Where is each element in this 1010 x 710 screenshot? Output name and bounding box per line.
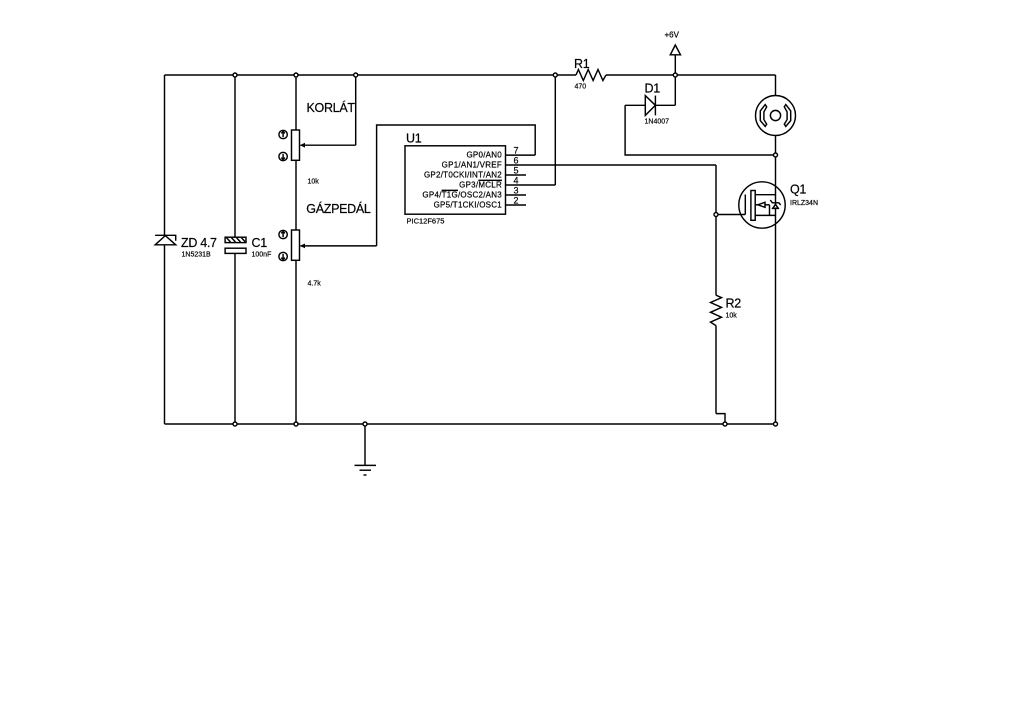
label Q1 bbox=[790, 183, 806, 197]
svg-text:U1: U1 bbox=[406, 132, 422, 146]
label R1 bbox=[574, 57, 590, 71]
value 4.7k (GAZPEDAL) bbox=[308, 281, 322, 288]
bottom rail wire (GND net) bbox=[165, 423, 776, 425]
svg-text:GP3/MCLR: GP3/MCLR bbox=[459, 181, 502, 190]
label U1 bbox=[406, 132, 422, 146]
svg-text:470: 470 bbox=[575, 84, 587, 91]
left rail wire bbox=[164, 75, 166, 424]
pin 3 number bbox=[514, 186, 519, 196]
wire pin 4 to top rail bbox=[554, 75, 556, 185]
svg-text:10k: 10k bbox=[726, 313, 738, 320]
pin label GP3/MCLR bbox=[459, 180, 502, 189]
junction motor bottom / drain bbox=[774, 153, 778, 157]
label +6V bbox=[665, 31, 680, 40]
junction R2 bottom bbox=[723, 422, 727, 426]
value 1N4007 bbox=[645, 119, 670, 126]
value 470 bbox=[575, 84, 587, 91]
label ZD 4.7 bbox=[181, 236, 217, 250]
label KORLAT bbox=[307, 100, 356, 115]
pin 4 number bbox=[514, 176, 519, 186]
svg-text:IRLZ34N: IRLZ34N bbox=[790, 200, 818, 207]
pin label GP1/AN1/VREF bbox=[442, 161, 502, 170]
svg-text:+6V: +6V bbox=[665, 31, 680, 40]
potentiometer KORLAT body bbox=[292, 130, 300, 160]
junction gate node bbox=[714, 213, 718, 217]
junction KORLAT wiper top bbox=[354, 73, 358, 77]
label D1 bbox=[645, 82, 661, 96]
motor M bbox=[756, 75, 796, 136]
svg-text:GP5/T1CKI/OSC1: GP5/T1CKI/OSC1 bbox=[434, 201, 503, 210]
svg-text:Q1: Q1 bbox=[790, 183, 806, 197]
resistor R1 bbox=[576, 70, 606, 81]
IC U1 body bbox=[405, 146, 506, 214]
potentiometer GAZPEDAL body bbox=[292, 230, 300, 260]
svg-text:GP2/T0CKI/INT/AN2: GP2/T0CKI/INT/AN2 bbox=[424, 171, 502, 180]
svg-text:GP1/AN1/VREF: GP1/AN1/VREF bbox=[442, 161, 502, 170]
resistor R2 bbox=[711, 295, 722, 325]
ground symbol bbox=[355, 424, 377, 475]
junction +6V node bbox=[673, 73, 677, 77]
wire D1 anode to motor bottom node bbox=[625, 105, 775, 155]
potentiometer GAZPEDAL wiper arrow bbox=[300, 244, 377, 249]
value 100nF bbox=[252, 252, 272, 259]
wire pin6 net vertical (gate / R2) bbox=[716, 165, 725, 424]
junction right rail bottom bbox=[774, 422, 778, 426]
wire GAZPEDAL wiper to pin 7 bbox=[377, 125, 536, 246]
GAZPEDAL up adjust symbol bbox=[279, 230, 287, 238]
svg-text:C1: C1 bbox=[252, 236, 268, 250]
label GAZPEDAL bbox=[306, 201, 371, 216]
pin 2 stub bbox=[506, 204, 527, 206]
pin 3 stub bbox=[506, 194, 527, 196]
label R2 bbox=[726, 297, 742, 311]
pin 6 stub bbox=[506, 164, 717, 166]
potentiometer KORLAT wiper arrow bbox=[300, 143, 356, 148]
diode D1 bbox=[625, 96, 675, 116]
GAZPEDAL down adjust symbol bbox=[279, 252, 287, 260]
svg-text:5: 5 bbox=[514, 166, 519, 176]
pin label GP2/T0CKI/INT/AN2 bbox=[424, 171, 502, 180]
svg-text:GÁZPEDÁL: GÁZPEDÁL bbox=[306, 201, 371, 216]
svg-text:1N4007: 1N4007 bbox=[645, 119, 670, 126]
value 1N5231B bbox=[182, 252, 212, 259]
value IRLZ34N bbox=[790, 200, 818, 207]
capacitor C1 bbox=[225, 237, 246, 253]
power +6V symbol bbox=[670, 45, 680, 75]
junction C1 top bbox=[233, 73, 237, 77]
junction ground bbox=[363, 422, 367, 426]
KORLAT up adjust symbol bbox=[279, 130, 287, 138]
junction C1 bottom bbox=[233, 422, 237, 426]
label C1 bbox=[252, 236, 268, 250]
junction pot bottom bbox=[294, 422, 298, 426]
right rail wire (motor to MOSFET drain to GND end) bbox=[775, 136, 777, 425]
svg-text:PIC12F675: PIC12F675 bbox=[407, 217, 445, 226]
svg-text:KORLÁT: KORLÁT bbox=[307, 100, 356, 115]
top rail wire (VDD net) bbox=[165, 74, 776, 76]
pin 6 number bbox=[514, 156, 519, 166]
svg-text:GP4/T1G/OSC2/AN3: GP4/T1G/OSC2/AN3 bbox=[422, 191, 502, 200]
zener diode ZD 4.7 bbox=[155, 235, 176, 245]
KORLAT down adjust symbol bbox=[279, 152, 287, 160]
svg-text:GP0/AN0: GP0/AN0 bbox=[466, 151, 502, 160]
wire +6V node to D1 cathode bbox=[674, 75, 676, 105]
pin 7 stub bbox=[506, 154, 536, 156]
value 10k (KORLAT) bbox=[308, 179, 320, 186]
svg-text:10k: 10k bbox=[308, 179, 320, 186]
svg-text:2: 2 bbox=[514, 196, 519, 206]
svg-text:100nF: 100nF bbox=[252, 252, 272, 259]
pin 7 number bbox=[514, 146, 519, 156]
pin 2 number bbox=[514, 196, 519, 206]
value PIC12F675 bbox=[407, 217, 445, 226]
svg-text:1N5231B: 1N5231B bbox=[182, 252, 212, 259]
svg-text:4.7k: 4.7k bbox=[308, 281, 322, 288]
wire KORLAT wiper to top rail bbox=[355, 75, 357, 145]
svg-text:3: 3 bbox=[514, 186, 519, 196]
pin label GP4/T1G/OSC2/AN3 bbox=[422, 190, 502, 199]
value 10k (R2) bbox=[726, 313, 738, 320]
pin label GP0/AN0 bbox=[466, 151, 502, 160]
capacitor C1 wires bbox=[234, 75, 236, 424]
pin 5 number bbox=[514, 166, 519, 176]
svg-text:4: 4 bbox=[514, 176, 519, 186]
junction MCLR top bbox=[553, 73, 557, 77]
pin 4 stub bbox=[506, 184, 556, 186]
junction pot top bbox=[294, 73, 298, 77]
pin label GP5/T1CKI/OSC1 bbox=[434, 201, 503, 210]
pin 5 stub bbox=[506, 174, 527, 176]
svg-text:R1: R1 bbox=[574, 57, 590, 71]
MOSFET Q1 bbox=[716, 182, 785, 228]
svg-text:D1: D1 bbox=[645, 82, 661, 96]
potentiometer column wire bbox=[295, 75, 297, 424]
svg-text:ZD 4.7: ZD 4.7 bbox=[181, 236, 217, 250]
svg-text:6: 6 bbox=[514, 156, 519, 166]
svg-text:R2: R2 bbox=[726, 297, 742, 311]
svg-text:7: 7 bbox=[514, 146, 519, 156]
